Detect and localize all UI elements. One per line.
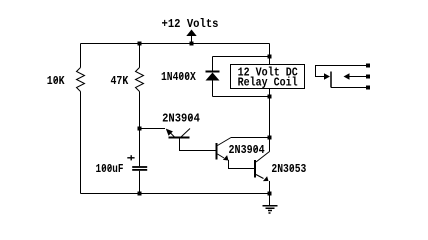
wire: Q2 emitter down and right to Q3 base [229, 160, 255, 169]
wire: Q1 base lead down and right to Q2 base [180, 139, 216, 151]
node: relay bottom junction dot [268, 95, 272, 99]
wire: relay box bottom to Q2 collector node [269, 89, 271, 138]
relay contact: armature bar [330, 72, 332, 88]
transistor Q2 2N3904 [217, 138, 232, 161]
resistor R1 10K [77, 68, 85, 92]
wire: left rail bottom [80, 92, 82, 194]
node: relay top junction dot [268, 55, 272, 59]
wire: right rail top corner down to relay top node [269, 44, 271, 65]
wire: +12V top rail [81, 43, 270, 45]
wire: bottom ground rail [81, 193, 270, 195]
svg-text:2N3053: 2N3053 [271, 162, 306, 176]
svg-text:47K: 47K [111, 74, 130, 88]
node: Q2 collector junction dot [268, 136, 272, 140]
label detail: slashed zeros of the terminal font [54, 74, 294, 171]
resistor R2 47K [136, 68, 144, 92]
wire: RC junction down to capacitor [139, 129, 141, 167]
wire: diode branch bottom [213, 96, 270, 98]
wire: diode anode lead [212, 81, 214, 97]
wire: rail from Q2 collector node down to Q3 collector [269, 138, 271, 152]
svg-text:2N3904: 2N3904 [229, 143, 265, 157]
svg-text:1N400X: 1N400X [161, 70, 197, 84]
svg-text:Relay Coil: Relay Coil [238, 75, 298, 89]
wire: second rail top lead [139, 44, 141, 68]
relay contact: common terminal wire [331, 87, 366, 89]
svg-text:2N3904: 2N3904 [162, 112, 200, 126]
wire: diode branch top [213, 56, 270, 58]
wire: 47K bottom lead to RC junction [139, 92, 141, 129]
ground symbol [263, 194, 278, 214]
wire: left rail top lead [80, 44, 82, 68]
label + polarity of C1 [127, 155, 134, 160]
wire: Q2 collector to rail [231, 137, 270, 139]
+12 Volts supply arrow [186, 30, 196, 44]
diode D1 1N400X [206, 72, 220, 81]
node: cap bottom rail junction dot [138, 192, 142, 196]
wire: Q3 emitter down to ground rail [269, 181, 271, 194]
wire: diode cathode lead [212, 57, 214, 72]
svg-text:10K: 10K [47, 74, 66, 88]
transistor Q3 2N3053 [255, 152, 270, 182]
relay contact: NC terminal wire with left arrow [344, 73, 367, 80]
node: +12V stem junction dot [190, 42, 194, 46]
node: RC junction dot [138, 127, 142, 131]
transistor Q1 2N3904 (zener connected) [140, 129, 191, 138]
relay coil box K1 [231, 65, 305, 89]
node: ground junction dot [268, 192, 272, 196]
node: 47K top junction dot [138, 42, 142, 46]
capacitor C1 100uF [132, 167, 147, 170]
relay contact: NO terminal wire and armature feed [316, 66, 367, 80]
wire: capacitor bottom lead [139, 171, 141, 194]
relay contact terminal squares [366, 64, 370, 90]
svg-text:+12 Volts: +12 Volts [162, 17, 219, 31]
